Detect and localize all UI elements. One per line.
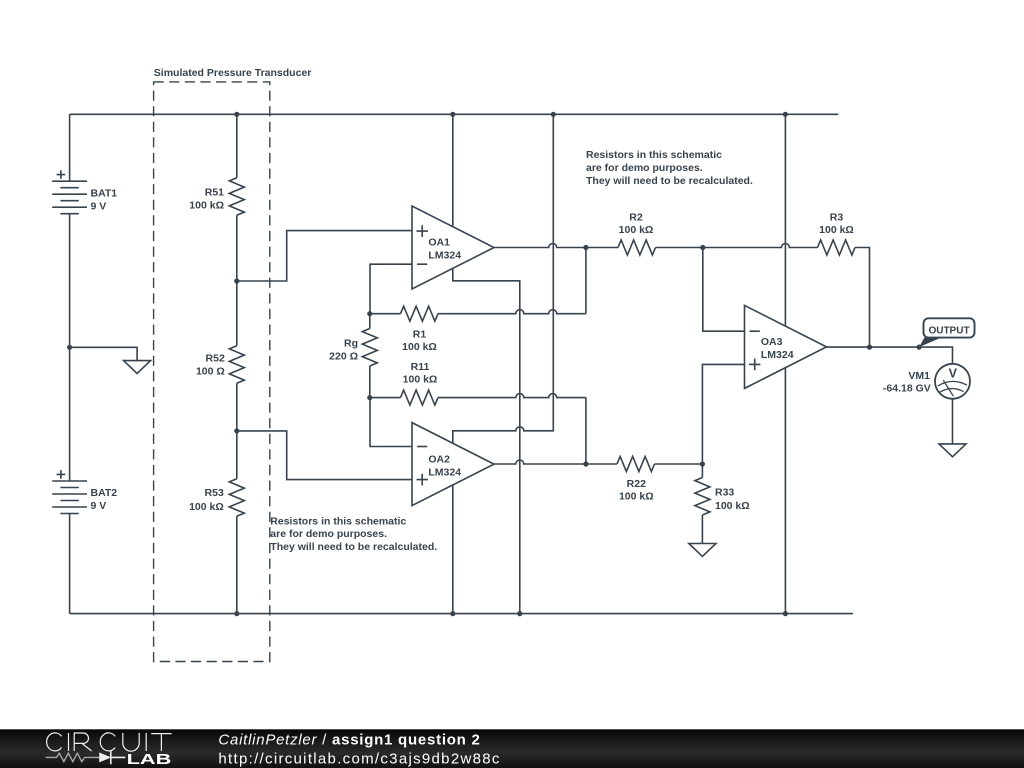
wire OA2 output with hop (494, 460, 617, 464)
ground GND3 (below VM1) (939, 444, 966, 457)
wire OA2 - input (370, 398, 412, 447)
battery BAT2 (52, 470, 117, 513)
svg-text:R22: R22 (627, 478, 646, 490)
node OA1 V+ top rail junction (450, 112, 455, 117)
node top rail / R51 junction (234, 112, 239, 117)
wire R2 to R3 with hop over OA3 V+ (656, 244, 818, 248)
resistor R33 100k (695, 464, 750, 544)
note text top (586, 149, 753, 187)
op-amp OA3 (LM324) (745, 305, 827, 388)
node OUTPUT flag attach junction (917, 345, 922, 350)
wire BAT2 bottom stem (69, 514, 71, 614)
svg-text:R51: R51 (205, 186, 224, 198)
svg-text:R1: R1 (413, 328, 427, 340)
node OA2 output / R11 junction (583, 461, 588, 466)
resistor R52 100 ohm (196, 346, 244, 384)
node R2/R3 to OA3 - input junction (700, 245, 705, 250)
node OA3 V+ top rail junction (783, 112, 788, 117)
svg-text:R3: R3 (830, 212, 844, 224)
svg-text:Simulated Pressure Transducer: Simulated Pressure Transducer (154, 67, 312, 79)
wire R3 right corner down to OA3 output (855, 248, 870, 348)
node Rg top / R1 left junction (367, 311, 372, 316)
OA1 - input glyph (417, 263, 427, 265)
node OA2 V+ top rail junction (551, 112, 556, 117)
svg-text:They will need to be recalcula: They will need to be recalculated. (270, 541, 437, 553)
OA1 + input glyph (417, 225, 428, 237)
svg-text:OA3: OA3 (761, 336, 783, 348)
svg-text:BAT1: BAT1 (91, 187, 118, 199)
wire -9V bottom rail (70, 613, 853, 615)
svg-text:R11: R11 (411, 361, 430, 373)
svg-text:-64.18 GV: -64.18 GV (883, 383, 931, 395)
node R53 / bottom rail junction (234, 611, 239, 616)
node OA3 output / R3 junction (867, 345, 872, 350)
svg-text:R33: R33 (715, 487, 734, 499)
CircuitLab logo zigzag-diode glyph (46, 751, 126, 765)
Simulated Pressure Transducer dashed box (154, 82, 270, 662)
svg-text:Resistors in this schematic: Resistors in this schematic (270, 515, 406, 527)
svg-text:9 V: 9 V (91, 500, 107, 512)
op-amp OA2 (LM324) (412, 423, 494, 506)
wire R11 feedback vertical to OA2 output (585, 398, 587, 464)
svg-text:LM324: LM324 (761, 349, 794, 361)
wire R1 feedback vertical to OA1 output (585, 248, 587, 314)
svg-text:http://circuitlab.com/c3ajs9db: http://circuitlab.com/c3ajs9db2w88c (218, 750, 500, 767)
svg-text:100 kΩ: 100 kΩ (402, 341, 437, 353)
resistor R51 100k (189, 178, 244, 216)
node R22/R33 junction (700, 461, 705, 466)
wire OA1 V+ pin to top rail (452, 114, 454, 226)
svg-text:are for demo purposes.: are for demo purposes. (586, 162, 703, 174)
CircuitLab logo CIRCUIT (line-art letters) (47, 733, 172, 751)
OA3 + input glyph (749, 359, 760, 371)
wire R11 right with hops over verticals (438, 394, 586, 398)
wire OA1 - input (370, 264, 412, 314)
node R51/R52 tap junction (234, 278, 239, 283)
node Rg bottom / R11 left junction (367, 395, 372, 400)
wire tap R52/R53 junction to OA2 + input (237, 431, 412, 480)
OA3 - input glyph (750, 330, 760, 332)
OUTPUT flag pointer (919, 337, 942, 347)
wire R52 to R53 (236, 383, 238, 479)
node OA3 V- bottom rail junction (783, 611, 788, 616)
resistor R22 100k (617, 457, 655, 503)
svg-text:100 kΩ: 100 kΩ (189, 199, 224, 211)
wire R22 to R33 top node (655, 463, 703, 465)
resistor Rg 220 ohm (329, 314, 377, 398)
node battery midpoint junction (67, 345, 72, 350)
svg-text:They will need to be recalcula: They will need to be recalculated. (586, 175, 753, 187)
resistor R53 100k (189, 479, 244, 517)
svg-text:LM324: LM324 (428, 250, 461, 262)
svg-text:100 kΩ: 100 kΩ (619, 224, 654, 236)
wire OA2 V- pin to bottom rail (452, 484, 454, 613)
ground GND1 (battery midpoint) (124, 361, 151, 374)
svg-text:BAT2: BAT2 (91, 487, 118, 499)
wire midpoint to ground (70, 347, 138, 360)
wire OA3 output to voltmeter corner (827, 347, 953, 364)
OUTPUT flag (924, 318, 975, 337)
node R52/R53 tap junction (234, 428, 239, 433)
node OA2 V- bottom rail junction (450, 611, 455, 616)
svg-text:Rg: Rg (344, 338, 358, 350)
resistor R11 100k (370, 361, 438, 405)
svg-text:OA1: OA1 (428, 237, 450, 249)
voltmeter VM1 (883, 364, 970, 399)
svg-text:are for demo purposes.: are for demo purposes. (270, 528, 387, 540)
svg-text:LAB: LAB (127, 751, 172, 767)
svg-text:VM1: VM1 (908, 370, 930, 382)
wire OA1 output row with hops (494, 244, 618, 248)
svg-text:LM324: LM324 (428, 466, 461, 478)
svg-text:Resistors in this schematic: Resistors in this schematic (586, 149, 722, 161)
battery BAT1 (52, 170, 117, 213)
wire R53 to bottom rail (236, 516, 238, 613)
svg-text:100 kΩ: 100 kΩ (819, 224, 854, 236)
wire OA2 V+ pin to top rail with hop (453, 114, 554, 443)
svg-text:R52: R52 (206, 353, 225, 365)
wire R51 top (236, 114, 238, 178)
resistor R3 100k (818, 212, 856, 255)
svg-text:9 V: 9 V (91, 200, 107, 212)
svg-text:100 kΩ: 100 kΩ (619, 490, 654, 502)
OA2 + input glyph (417, 474, 428, 486)
svg-text:100 Ω: 100 Ω (196, 366, 225, 378)
svg-text:R53: R53 (205, 487, 224, 499)
wire VM1 bottom to ground (952, 399, 954, 444)
wire OA1 V- pin to bottom rail (453, 268, 520, 613)
OA2 - input glyph (417, 446, 427, 448)
svg-text:100 kΩ: 100 kΩ (403, 374, 438, 386)
wire OA3 + input from R22/R33 node (702, 364, 744, 464)
node OA1 V- bottom rail junction (517, 611, 522, 616)
svg-text:OA2: OA2 (428, 453, 450, 465)
svg-text:100 kΩ: 100 kΩ (189, 501, 224, 513)
ground GND2 (below R33) (689, 544, 716, 557)
wire OA3 V- pin to bottom rail (784, 368, 786, 614)
resistor R1 100k (370, 306, 438, 353)
wire R1 right with hops over verticals (438, 310, 586, 314)
note text bottom (270, 515, 437, 553)
op-amp OA1 (LM324) (412, 206, 494, 289)
svg-text:V: V (949, 366, 958, 380)
wire tap R51/R52 junction to OA1 + input (237, 231, 412, 281)
svg-text:OUTPUT: OUTPUT (928, 325, 969, 336)
svg-text:100 kΩ: 100 kΩ (715, 500, 750, 512)
resistor R2 100k (618, 212, 656, 255)
svg-text:CaitlinPetzler / assign1 quest: CaitlinPetzler / assign1 question 2 (218, 731, 480, 748)
wire BAT1 bottom to BAT2 top (69, 214, 71, 481)
svg-text:220 Ω: 220 Ω (329, 350, 358, 362)
svg-text:R2: R2 (629, 212, 643, 224)
wire OA3 V+ pin to top rail (784, 114, 786, 326)
wire OA3 - input from R2/R3 node (703, 248, 745, 332)
wire BAT1 top stem (69, 114, 71, 181)
wire +9V top rail (70, 113, 839, 115)
wire R51 to R52 (236, 215, 238, 345)
node OA1 output / R1 feedback junction (583, 245, 588, 250)
